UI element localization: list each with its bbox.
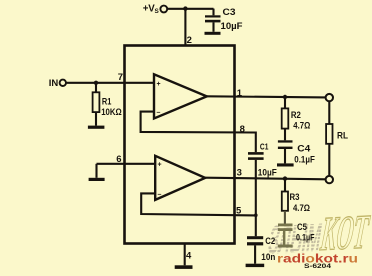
wire pin6 ground drop	[95, 164, 97, 178]
capacitor C3 plates	[205, 15, 221, 17]
terminal RL top	[326, 94, 333, 101]
svg-text:IN: IN	[49, 78, 59, 88]
resistor R3	[282, 192, 288, 211]
ground under C3	[205, 32, 221, 35]
IC U1 outline	[125, 46, 235, 244]
resistor R1	[93, 92, 100, 112]
ground under C5	[278, 245, 293, 248]
capacitor C4 plates	[278, 140, 293, 142]
wire C4 to ground	[284, 149, 286, 163]
junction dot pin3/R3	[283, 176, 287, 180]
wire RL stems	[328, 101, 330, 176]
wire C3 drop	[212, 9, 214, 16]
svg-text:5: 5	[236, 205, 242, 216]
svg-text:3: 3	[237, 168, 242, 179]
svg-text:10µF: 10µF	[221, 21, 243, 32]
wire IN to op-amp1	[66, 82, 154, 84]
svg-text:+: +	[157, 81, 161, 88]
svg-text:10µF: 10µF	[258, 168, 277, 179]
wire C3 to ground	[212, 22, 214, 31]
wire pin6 input	[97, 163, 156, 165]
wire pin4	[184, 244, 186, 266]
svg-text:0.1µF: 0.1µF	[294, 154, 315, 165]
terminal +Vs	[160, 6, 167, 13]
wire R1 to ground	[95, 112, 97, 126]
capacitor C1 plates	[248, 152, 264, 155]
terminal RL bottom	[326, 176, 333, 183]
svg-text:+: +	[158, 162, 162, 169]
svg-text:4: 4	[186, 250, 192, 261]
svg-text:C2: C2	[265, 236, 275, 247]
resistor RL	[326, 124, 332, 144]
svg-text:7: 7	[118, 72, 123, 83]
svg-text:–: –	[158, 192, 162, 199]
svg-text:R3: R3	[290, 192, 300, 203]
capacitor C2 plates	[247, 236, 263, 239]
svg-text:–: –	[157, 110, 161, 117]
svg-text:R1: R1	[102, 96, 112, 107]
ground under C2	[246, 264, 265, 267]
wire pin3 output	[205, 178, 326, 180]
wire R2 to C4	[284, 129, 286, 141]
ground under R1	[88, 126, 105, 129]
svg-text:RL: RL	[337, 131, 348, 142]
svg-text:C3: C3	[223, 7, 236, 18]
wire R2 top stem	[284, 97, 286, 108]
svg-text:4.7Ω: 4.7Ω	[293, 203, 310, 214]
ground under C4	[277, 163, 294, 166]
svg-text:1: 1	[237, 88, 243, 99]
wire pin1 output	[207, 96, 326, 97]
junction dot pin1/R2	[283, 95, 287, 99]
wire C1-C2 vertical	[255, 160, 257, 236]
wire +Vs rail	[167, 8, 213, 10]
svg-text:S-6204: S-6204	[304, 263, 331, 270]
wire R3 to C5	[284, 211, 286, 224]
resistor R2	[282, 108, 289, 128]
svg-text:10n: 10n	[261, 252, 275, 263]
svg-text:2: 2	[187, 35, 192, 46]
terminal IN	[60, 80, 66, 86]
svg-text:8: 8	[240, 124, 245, 135]
junction dot +Vs	[183, 6, 187, 10]
svg-text:C5: C5	[297, 222, 308, 233]
svg-text:10KΩ: 10KΩ	[101, 107, 122, 118]
ground at pin6	[89, 178, 105, 181]
op-amp U1B	[155, 156, 205, 200]
wire R1 top stem	[95, 83, 97, 93]
svg-text:0.1µF: 0.1µF	[296, 233, 315, 244]
svg-text:C4: C4	[297, 144, 311, 155]
wire pin2 vertical	[184, 9, 186, 46]
svg-text:R2: R2	[291, 110, 301, 121]
junction dot IN/R1	[94, 81, 98, 85]
svg-text:4.7Ω: 4.7Ω	[293, 120, 310, 131]
op-amp U1A	[154, 74, 207, 118]
svg-text:C1: C1	[260, 141, 269, 151]
wire feedback op-amp2 to pin5	[141, 193, 256, 215]
wire R3 top stem	[284, 179, 286, 192]
watermark striped word	[266, 214, 325, 263]
wire C2 to ground	[254, 245, 256, 263]
capacitor C5 plates (faded)	[278, 224, 293, 248]
wire feedback op-amp1 to pin8	[141, 112, 256, 153]
ground under pin4	[175, 265, 193, 269]
junction dot pin5/C2	[254, 213, 258, 217]
svg-text:6: 6	[116, 154, 121, 165]
